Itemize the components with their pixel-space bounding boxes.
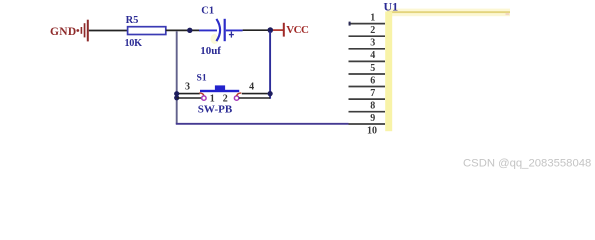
svg-text:10K: 10K	[125, 38, 143, 49]
svg-text:CSDN @qq_2083558048: CSDN @qq_2083558048	[463, 158, 591, 170]
svg-text:1: 1	[370, 12, 375, 23]
svg-text:8: 8	[370, 101, 375, 112]
svg-text:4: 4	[249, 81, 254, 92]
svg-text:U1: U1	[384, 0, 399, 14]
svg-text:10: 10	[367, 125, 377, 136]
svg-text:3: 3	[185, 81, 190, 92]
svg-text:GND: GND	[50, 26, 76, 38]
svg-text:C1: C1	[201, 6, 214, 17]
svg-text:7: 7	[370, 88, 375, 99]
svg-text:2: 2	[370, 25, 375, 36]
svg-text:10uf: 10uf	[200, 45, 221, 57]
svg-text:SW-PB: SW-PB	[198, 104, 233, 116]
svg-text:6: 6	[370, 75, 375, 86]
svg-text:S1: S1	[197, 72, 207, 83]
svg-text:3: 3	[370, 38, 375, 49]
svg-text:9: 9	[370, 113, 375, 124]
svg-text:4: 4	[370, 50, 375, 61]
svg-text:VCC: VCC	[286, 24, 309, 36]
svg-text:5: 5	[370, 63, 375, 74]
svg-text:R5: R5	[126, 15, 139, 26]
